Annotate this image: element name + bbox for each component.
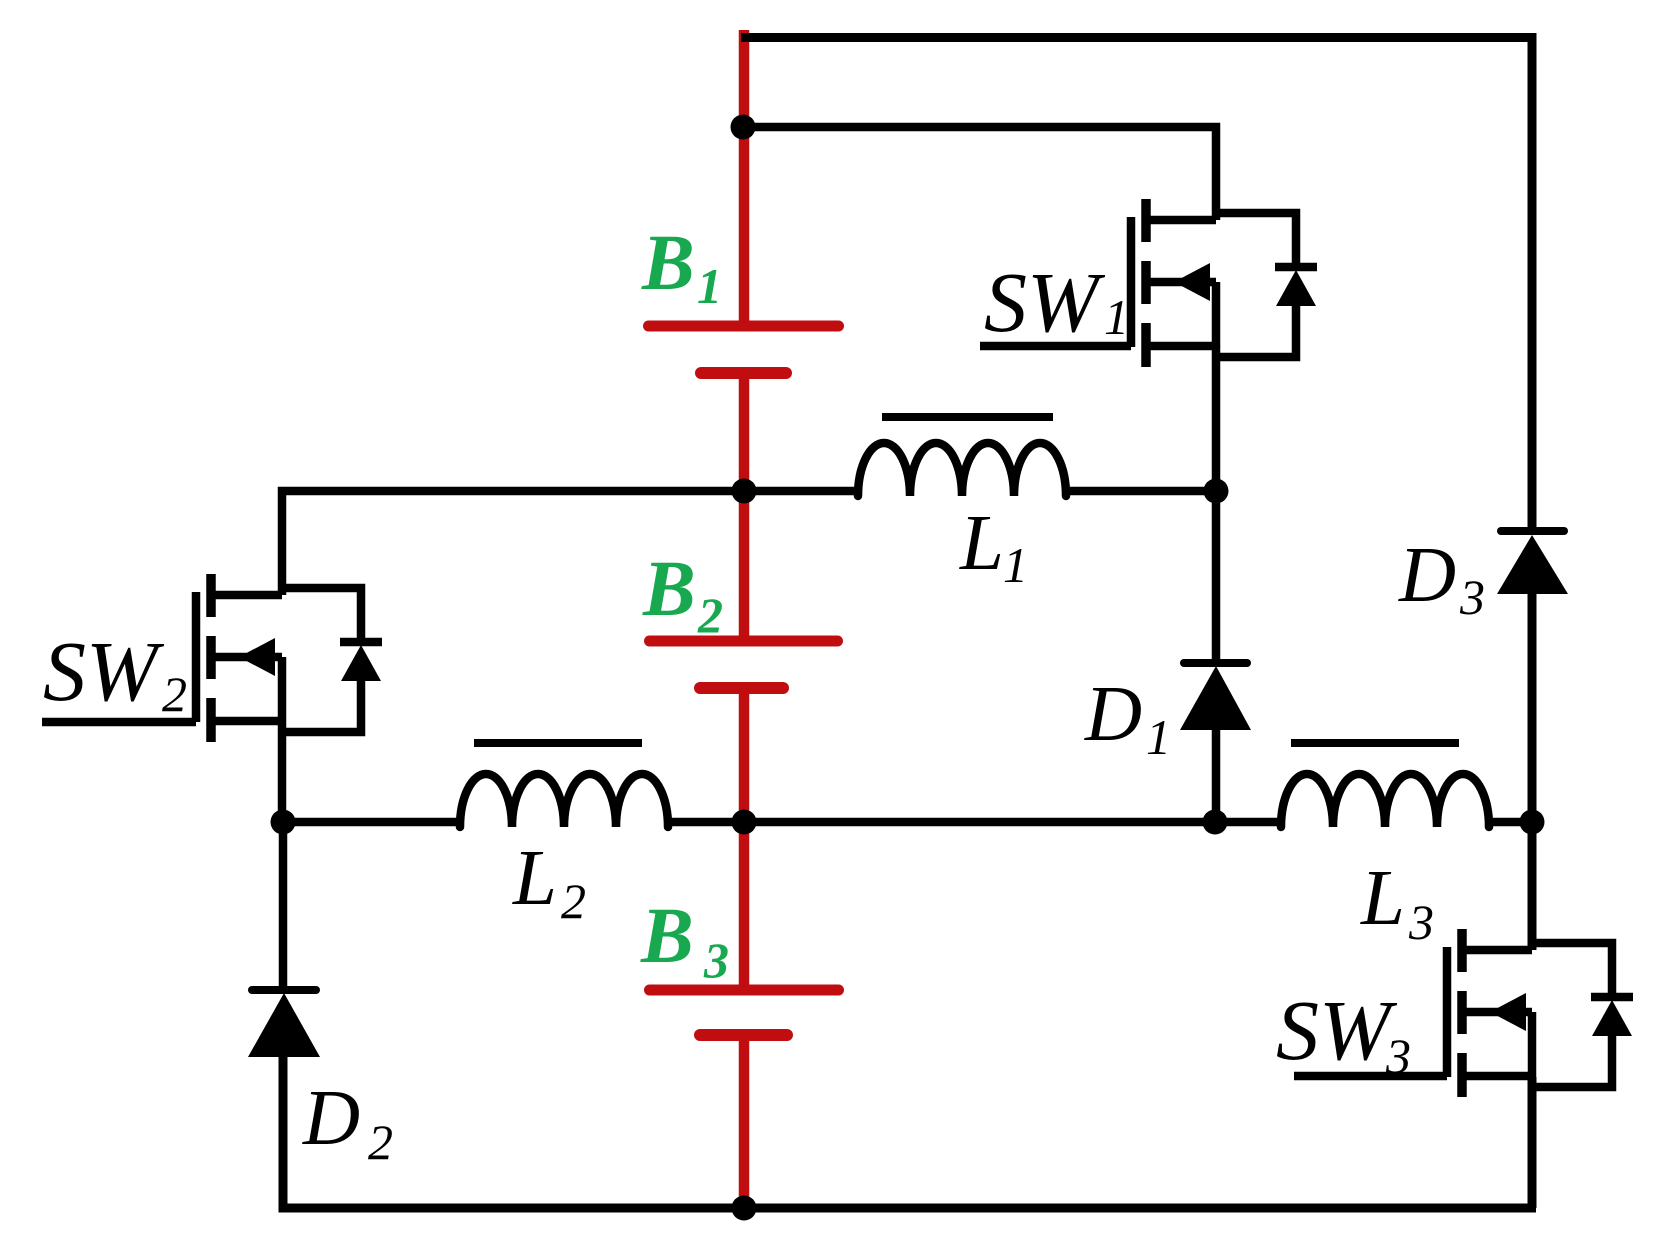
svg-text:SW: SW (984, 254, 1106, 350)
mosfet SW3 (1447, 929, 1633, 1097)
node F (1215,822) (1203, 810, 1228, 835)
svg-text:1: 1 (1104, 289, 1129, 345)
svg-text:2: 2 (561, 873, 586, 929)
svg-text:1: 1 (1146, 709, 1171, 765)
svg-text:D: D (1398, 532, 1456, 619)
svg-text:B: B (640, 893, 694, 980)
svg-text:SW: SW (43, 623, 165, 719)
svg-text:B: B (642, 546, 696, 633)
svg-text:L: L (1360, 855, 1405, 942)
wire gate lead SW2 (42, 718, 196, 727)
node G (1532,822) (1520, 810, 1545, 835)
svg-text:2: 2 (697, 587, 723, 643)
node L1-D1 junction (1216,491) (1204, 479, 1229, 504)
svg-text:B: B (641, 220, 695, 307)
diode D3 (1497, 531, 1568, 594)
svg-text:3: 3 (1408, 894, 1434, 950)
wire SW3 source to bottom (1528, 1077, 1537, 1208)
battery B1 (649, 30, 839, 373)
svg-text:L: L (512, 835, 557, 922)
svg-text:D: D (302, 1075, 360, 1162)
svg-text:D: D (1084, 671, 1142, 758)
inductor L3 (1281, 743, 1489, 827)
wire row3 middle (668, 818, 1281, 827)
svg-text:3: 3 (703, 932, 729, 988)
battery B3 (650, 688, 839, 1208)
wire D2 cathode up to node D (279, 822, 288, 990)
inductor L1 (858, 417, 1066, 496)
node B (744,491) (732, 479, 757, 504)
svg-text:1: 1 (1003, 537, 1028, 593)
node E (744,822) (732, 810, 757, 835)
wire top rail (741, 38, 1532, 532)
svg-text:3: 3 (1385, 1028, 1411, 1084)
wire gate lead SW3 (1294, 1072, 1447, 1081)
wire right rail D3 to SW3 (1528, 593, 1537, 950)
wire row3 left (283, 818, 460, 827)
wire L1 right to junction (1066, 487, 1216, 496)
mosfet SW2 (196, 574, 382, 742)
wire SW2 source to node D (278, 722, 287, 822)
diode D2 (248, 990, 320, 1057)
wire SW1 source to D1 (1212, 346, 1221, 663)
wire row2 node B to SW2 drain (282, 491, 858, 595)
svg-text:SW: SW (1276, 982, 1398, 1078)
svg-text:2: 2 (162, 666, 187, 722)
wire row3 right (1489, 818, 1532, 827)
svg-text:2: 2 (368, 1114, 393, 1170)
node D (283,822) (271, 810, 296, 835)
svg-text:L: L (959, 500, 1004, 587)
inductor L2 (460, 743, 668, 827)
wire node A to SW1 drain (743, 127, 1216, 220)
diode D1 (1180, 663, 1251, 730)
svg-text:3: 3 (1459, 569, 1485, 625)
node H bottom (744,1208) (732, 1196, 757, 1221)
battery B2 (650, 373, 838, 688)
node A (743,127) (731, 115, 756, 140)
wire D1 anode to node C (1212, 730, 1221, 822)
wire gate lead SW1 (980, 342, 1131, 351)
mosfet SW1 (1131, 199, 1317, 367)
wire D2 anode to bottom rail and bottom rail (283, 1057, 1536, 1208)
svg-text:1: 1 (697, 258, 722, 314)
